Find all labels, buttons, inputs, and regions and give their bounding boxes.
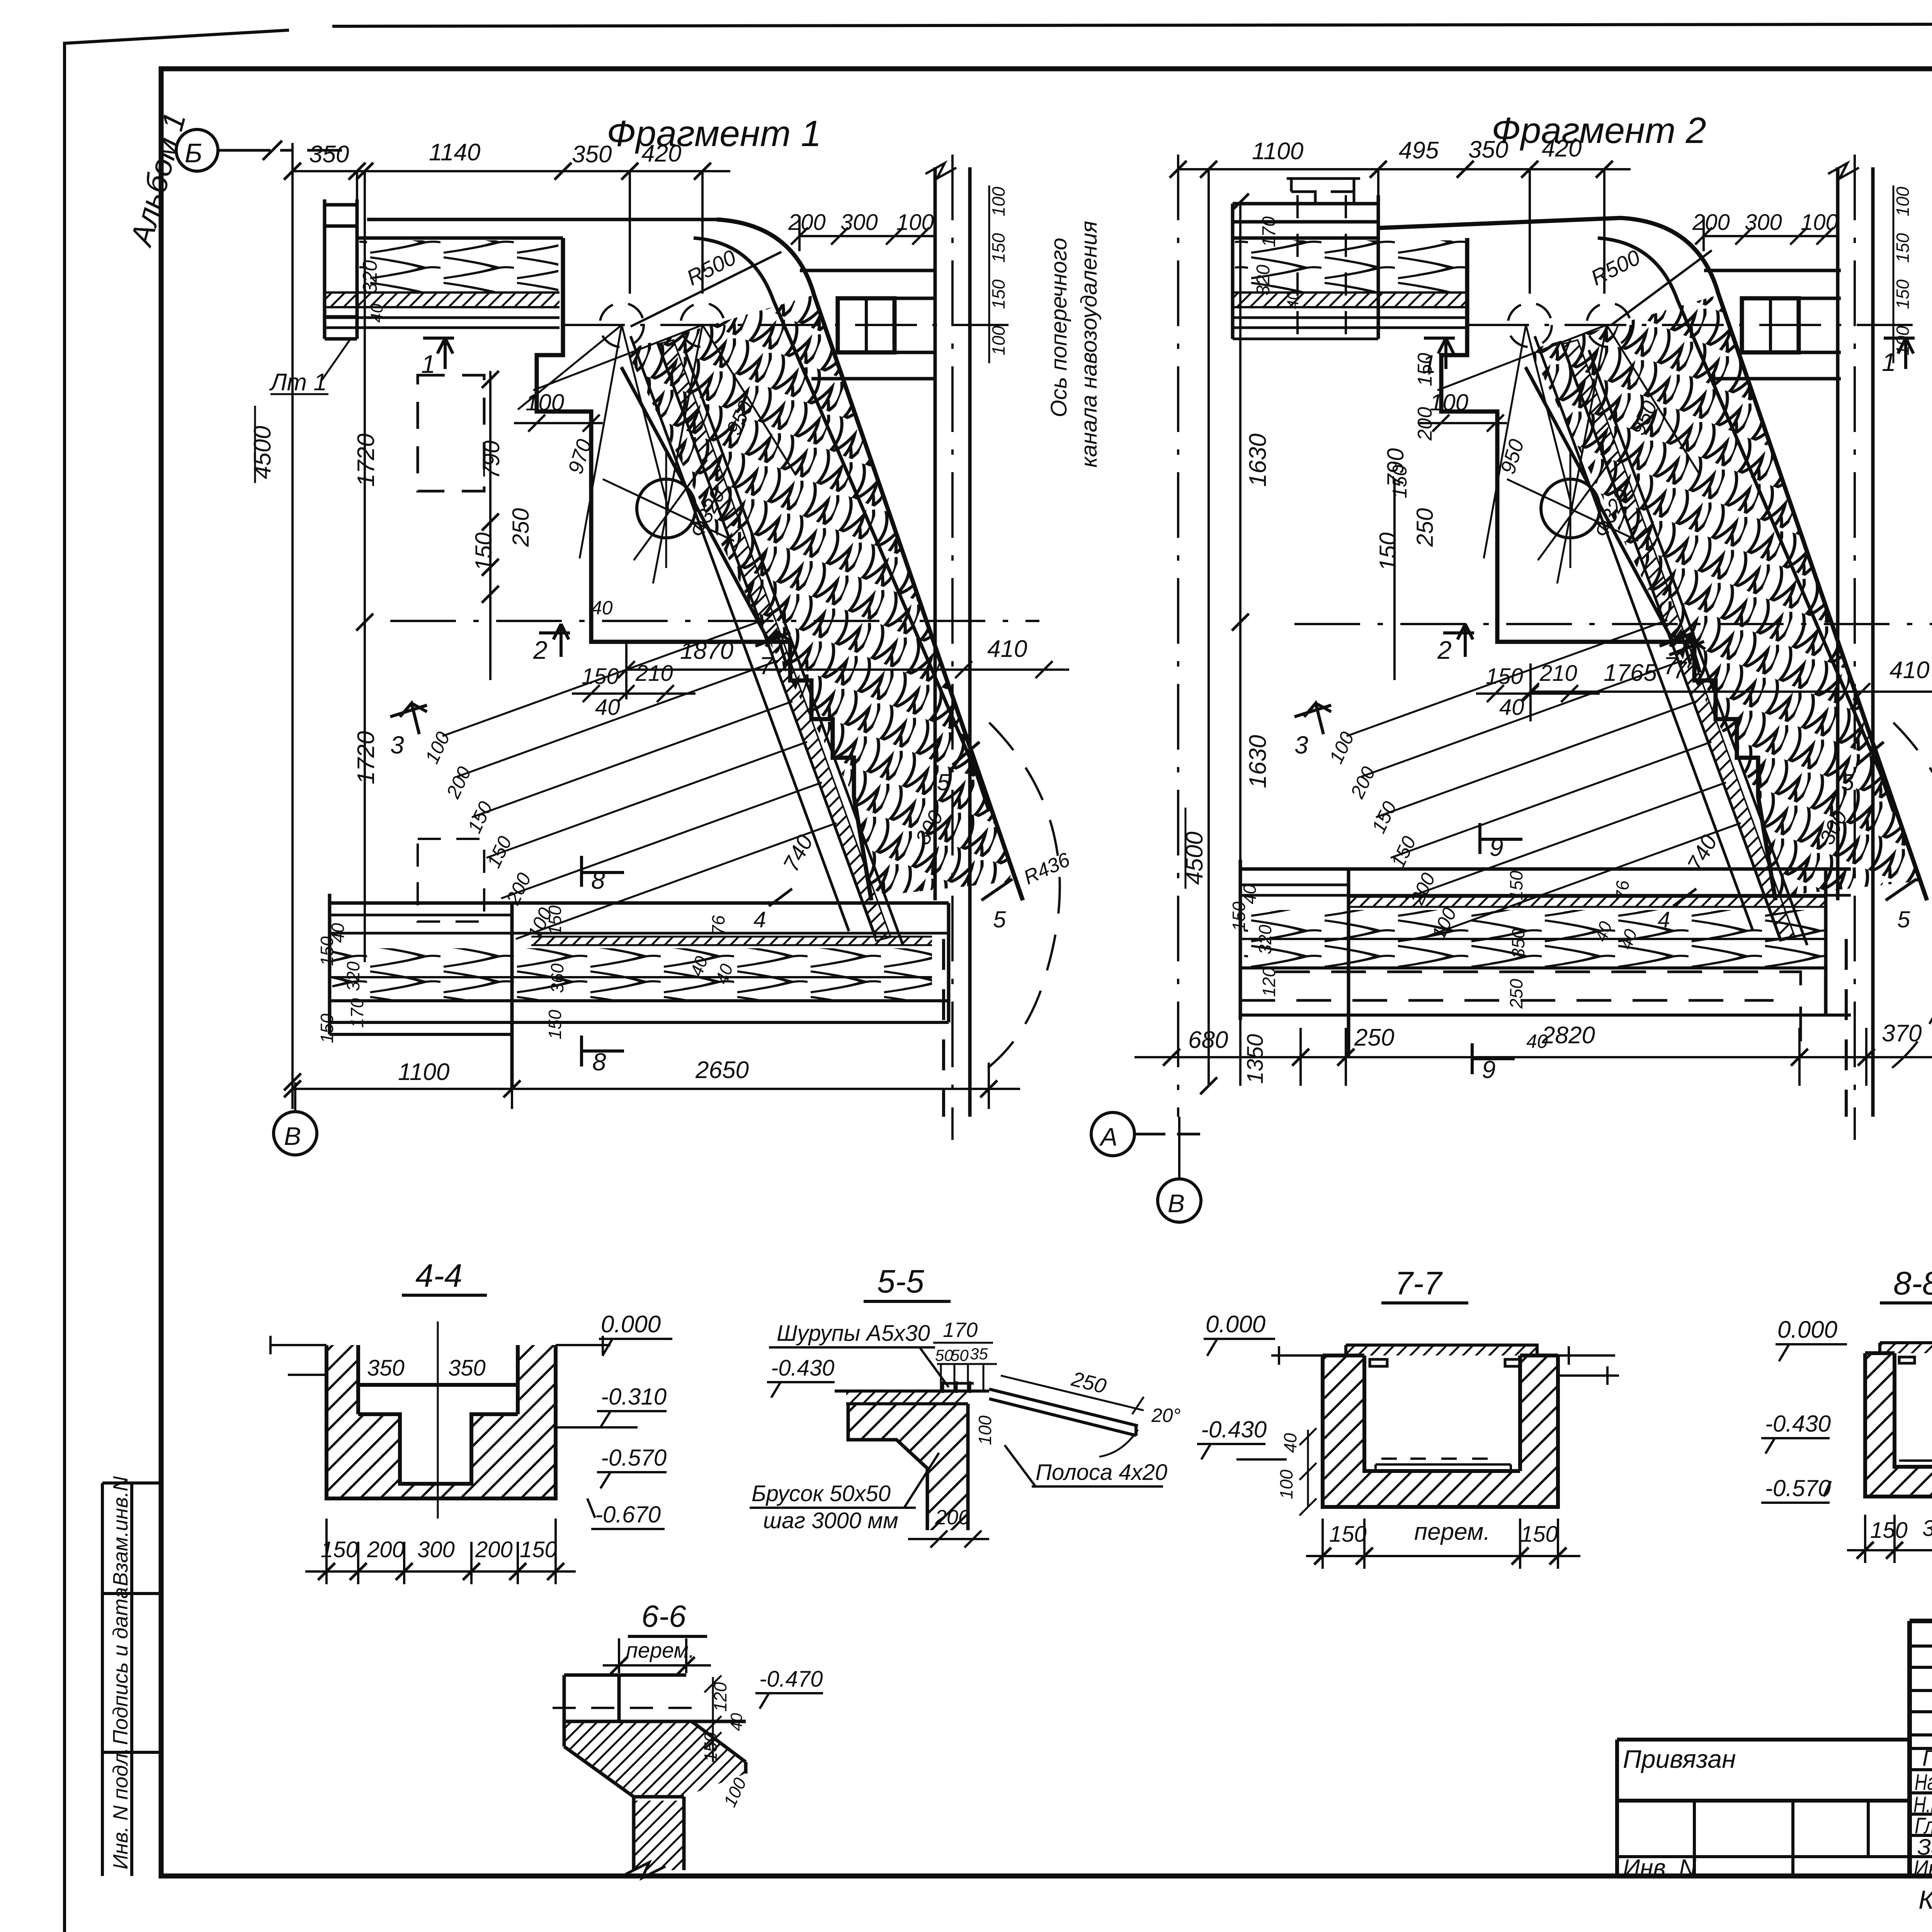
svg-text:Фрагмент 2: Фрагмент 2 — [1492, 110, 1706, 151]
outer top boundary curve into diagonal — [717, 219, 1023, 900]
fragment 1 top dimension texts — [309, 139, 681, 168]
svg-text:150: 150 — [1893, 279, 1913, 309]
dashed sweep curve — [1878, 723, 1932, 1078]
svg-text:5: 5 — [993, 906, 1006, 932]
svg-text:76: 76 — [1612, 880, 1633, 900]
svg-text:-0.470: -0.470 — [759, 1667, 823, 1692]
svg-text:250: 250 — [1354, 1024, 1394, 1051]
bottom channel line y2415 — [330, 932, 949, 935]
svg-text:40: 40 — [1240, 884, 1260, 904]
R500 radius arrow — [631, 252, 781, 327]
tick on axis — [263, 141, 282, 160]
svg-text:350: 350 — [367, 1355, 405, 1381]
svg-text:150: 150 — [1893, 233, 1913, 263]
wall below hatched — [848, 1404, 968, 1530]
svg-text:1870: 1870 — [680, 638, 733, 664]
svg-text:100: 100 — [1430, 389, 1468, 415]
dashed circles on axis — [1508, 303, 1552, 347]
left wall band F2 — [1233, 195, 1378, 339]
svg-text:Брусок 50х50: Брусок 50х50 — [752, 1481, 891, 1506]
svg-text:100: 100 — [975, 1415, 995, 1445]
svg-text:6-6: 6-6 — [641, 1599, 686, 1633]
svg-text:Взам.инв.N: Взам.инв.N — [109, 1476, 132, 1586]
svg-text:370: 370 — [1882, 1020, 1922, 1047]
svg-text:1630: 1630 — [1245, 434, 1271, 487]
main plan outline with pit — [537, 238, 871, 900]
svg-text:2: 2 — [533, 636, 548, 664]
vertical dim ticks left — [284, 163, 373, 1090]
bottom dim line — [293, 1063, 1020, 1109]
conveyor line 1 — [631, 336, 849, 931]
svg-text:150: 150 — [317, 936, 337, 966]
rotated dims left of channel — [1229, 871, 1641, 1009]
radial construction lines — [1437, 325, 1700, 583]
svg-text:100: 100 — [1801, 210, 1838, 235]
bottom channel second line — [330, 914, 512, 917]
dashed lower outline — [1240, 972, 1801, 1051]
right rotated small dims — [988, 187, 1009, 355]
title block outer — [1910, 1621, 1932, 1878]
svg-text:2650: 2650 — [695, 1057, 749, 1083]
svg-text:790: 790 — [1383, 448, 1408, 487]
inner boundary curve — [694, 238, 989, 811]
svg-text:320: 320 — [343, 961, 363, 991]
dashed hidden rect lower — [418, 839, 484, 922]
svg-text:200: 200 — [442, 763, 476, 802]
svg-text:150: 150 — [1870, 1518, 1908, 1543]
svg-text:Лт 1: Лт 1 — [269, 369, 327, 396]
outline 4-4 — [327, 1345, 556, 1498]
svg-text:Шурупы А5х30: Шурупы А5х30 — [777, 1321, 930, 1346]
conveyor line 2 — [658, 343, 876, 938]
svg-text:320: 320 — [1253, 265, 1274, 296]
rotated dims left of bottom channel — [317, 905, 737, 1043]
svg-text:5: 5 — [937, 769, 950, 795]
svg-text:1: 1 — [1882, 348, 1896, 376]
svg-text:1: 1 — [421, 350, 435, 378]
screws — [941, 1381, 974, 1393]
svg-text:4500: 4500 — [249, 426, 276, 479]
dim line 790/250/150 — [1393, 479, 1396, 680]
svg-text:100: 100 — [1893, 187, 1913, 216]
top dimension line — [293, 171, 730, 294]
svg-text:1720: 1720 — [353, 731, 379, 784]
svg-text:-0.670: -0.670 — [595, 1502, 661, 1527]
svg-text:Б: Б — [185, 138, 202, 168]
svg-text:А: А — [1099, 1122, 1117, 1151]
bottom slab hatched — [1364, 1471, 1520, 1507]
right wall hatched — [1520, 1355, 1558, 1507]
svg-text:Копир. Дёнкина: Копир. Дёнкина — [1918, 1885, 1932, 1915]
fan dim texts — [421, 728, 556, 942]
wall band lower lines — [325, 318, 560, 328]
svg-text:200: 200 — [788, 210, 826, 235]
perpendicular dim fan — [1347, 620, 1741, 939]
svg-text:3: 3 — [1294, 731, 1308, 759]
svg-text:Инв. N: Инв. N — [1623, 1855, 1696, 1881]
dims 200 300 100 — [788, 210, 934, 235]
svg-text:360: 360 — [1922, 1516, 1932, 1541]
svg-text:1350: 1350 — [1243, 1034, 1268, 1084]
svg-text:ГИП: ГИП — [1922, 1746, 1932, 1771]
fragment 2 top dim texts — [1252, 135, 1582, 165]
axis leader from Б — [218, 149, 342, 152]
svg-text:680: 680 — [1188, 1027, 1228, 1053]
svg-text:50: 50 — [951, 1346, 969, 1364]
top dim line — [1178, 169, 1631, 294]
svg-text:9: 9 — [1490, 833, 1503, 861]
svg-text:шаг 3000 мм: шаг 3000 мм — [763, 1508, 898, 1533]
svg-text:Нач.отд.: Нач.отд. — [1915, 1770, 1932, 1795]
svg-text:0.000: 0.000 — [601, 1311, 661, 1338]
right wall axis dash-dot — [951, 155, 954, 1140]
svg-text:320: 320 — [359, 260, 381, 294]
T element cross channel — [838, 298, 895, 352]
axis circle В bottom — [274, 1112, 317, 1155]
svg-text:790: 790 — [478, 440, 504, 479]
svg-text:1720: 1720 — [353, 434, 379, 487]
dim line 790/250/150 — [489, 371, 492, 680]
bottom channel lower lines — [330, 1001, 949, 1034]
conveyor hatched strip — [659, 340, 891, 941]
bottom channel F2 — [1240, 867, 1851, 871]
outer border left — [63, 42, 66, 1932]
svg-text:0.000: 0.000 — [1206, 1311, 1265, 1338]
svg-text:-0.430: -0.430 — [1201, 1417, 1267, 1442]
svg-text:410: 410 — [1889, 657, 1929, 684]
band lower lines — [1233, 318, 1467, 339]
big cell split — [1910, 1690, 1932, 1748]
bottom dims — [321, 1537, 557, 1562]
svg-text:250: 250 — [508, 508, 534, 547]
svg-text:Подпись и дата: Подпись и дата — [109, 1587, 132, 1745]
circle D320 — [637, 479, 696, 538]
svg-text:-0.570: -0.570 — [1765, 1475, 1831, 1501]
left axis vertical dash-dot — [1177, 155, 1179, 1117]
svg-text:1100: 1100 — [1252, 138, 1303, 165]
svg-text:200: 200 — [935, 1506, 970, 1529]
inner boundary curve — [1598, 238, 1893, 811]
signature rows — [1910, 1770, 1932, 1857]
floor extension lines — [270, 1336, 611, 1375]
svg-text:8: 8 — [591, 866, 605, 894]
interior liner — [1899, 1406, 1932, 1461]
svg-text:150: 150 — [520, 1537, 557, 1562]
right wall of fragment 2 — [1838, 167, 1873, 1117]
bottom channel top line — [330, 901, 949, 905]
outline 8-8 — [1865, 1353, 1932, 1497]
diagonal channel scale texture — [1530, 295, 1920, 896]
svg-text:20°: 20° — [1151, 1405, 1181, 1426]
svg-text:320: 320 — [1255, 925, 1275, 954]
svg-text:0.000: 0.000 — [1777, 1316, 1837, 1343]
bottom dim line F2 — [1134, 1028, 1932, 1086]
svg-text:40: 40 — [1280, 1433, 1300, 1453]
mid dash-dot axis — [390, 620, 1039, 622]
wall band top lines — [357, 219, 717, 238]
svg-text:Фрагмент 1: Фрагмент 1 — [607, 113, 821, 154]
svg-text:100: 100 — [896, 210, 934, 235]
svg-text:40: 40 — [727, 1713, 745, 1731]
privyazan block — [1617, 1740, 1910, 1878]
svg-text:150: 150 — [545, 905, 565, 935]
svg-text:150: 150 — [582, 664, 619, 689]
svg-text:740: 740 — [778, 831, 818, 876]
svg-text:1140: 1140 — [429, 139, 480, 166]
svg-text:40: 40 — [367, 304, 386, 323]
radial construction lines — [518, 325, 796, 583]
svg-text:150: 150 — [1387, 833, 1420, 871]
left wall hatched — [1865, 1353, 1895, 1497]
top break squares — [1287, 178, 1360, 204]
conveyor hatched strip — [1563, 340, 1795, 941]
dashed circles on axis — [600, 303, 644, 347]
outline 7-7 — [1323, 1355, 1558, 1507]
svg-text:R500: R500 — [683, 245, 740, 290]
svg-text:350: 350 — [1508, 929, 1528, 958]
svg-text:150: 150 — [483, 833, 516, 871]
svg-text:350: 350 — [1468, 136, 1508, 163]
svg-text:76: 76 — [708, 915, 728, 935]
bottom slab hatched — [1895, 1467, 1932, 1497]
left boundary of diagonal channel — [1526, 367, 1673, 641]
upper-left sub table rows — [1910, 1646, 1932, 1735]
bottom channel grain band — [332, 948, 932, 1000]
mid dash-dot axis — [1294, 623, 1932, 625]
svg-text:150: 150 — [1367, 798, 1401, 836]
svg-text:4: 4 — [753, 907, 766, 932]
svg-text:1: 1 — [1422, 350, 1436, 378]
floor level lines sides — [1271, 1346, 1619, 1385]
wall band grain texture — [359, 240, 558, 292]
conveyor line 3 — [685, 350, 903, 945]
svg-text:100: 100 — [988, 326, 1009, 355]
perpendicular dim fan — [442, 620, 837, 939]
svg-text:40: 40 — [595, 695, 620, 720]
svg-text:Полоса 4х20: Полоса 4х20 — [1036, 1460, 1167, 1485]
axis circle А — [1091, 1112, 1134, 1156]
top slab hatched — [1346, 1345, 1537, 1355]
left wall hatched — [1323, 1355, 1364, 1507]
svg-text:Привязан: Привязан — [1623, 1745, 1736, 1773]
left dim verticals — [1209, 169, 1240, 1086]
left boundary of diagonal channel — [621, 367, 769, 641]
svg-text:350: 350 — [309, 141, 349, 168]
element Лт1 at wall end — [325, 199, 357, 339]
bottom channel verticals — [330, 894, 949, 1090]
svg-text:канала навозоудаления: канала навозоудаления — [1077, 221, 1102, 468]
svg-text:360: 360 — [547, 963, 567, 993]
wall break marks top — [925, 163, 956, 179]
svg-text:250: 250 — [1506, 979, 1526, 1009]
svg-text:4-4: 4-4 — [415, 1257, 462, 1294]
outer top boundary curve into diagonal — [1378, 218, 1927, 900]
svg-text:перем.: перем. — [626, 1638, 695, 1662]
band grain — [1235, 240, 1467, 292]
left margin stamp boxes — [102, 1483, 161, 1876]
top slab hatched — [1880, 1343, 1932, 1353]
svg-text:8-8: 8-8 — [1893, 1265, 1932, 1301]
svg-text:150: 150 — [545, 1010, 565, 1039]
main outline with pit F2 — [1441, 238, 1776, 900]
left vertical dim line 4500 — [293, 143, 365, 1082]
svg-text:2: 2 — [1437, 636, 1452, 664]
axis circle Б — [176, 129, 218, 171]
svg-text:150: 150 — [988, 279, 1009, 309]
svg-text:100: 100 — [526, 389, 564, 415]
axis dash-dot horizontal — [563, 324, 1009, 326]
dashed verticals in band — [1298, 195, 1346, 348]
circle D320 — [1541, 479, 1600, 538]
dashed mid line — [553, 1707, 696, 1709]
svg-text:200: 200 — [475, 1537, 513, 1562]
svg-text:Инж.I к.: Инж.I к. — [1913, 1856, 1932, 1881]
R500 radius arrow — [1611, 250, 1712, 325]
svg-text:250: 250 — [1412, 508, 1438, 547]
svg-text:170: 170 — [347, 998, 367, 1028]
interior anchors top — [1370, 1359, 1520, 1366]
slab hatched — [846, 1391, 968, 1404]
svg-text:Инв. N подл.: Инв. N подл. — [109, 1747, 132, 1869]
svg-text:40: 40 — [1499, 695, 1524, 720]
svg-text:R436: R436 — [1020, 849, 1073, 889]
svg-text:Ось поперечного: Ось поперечного — [1046, 238, 1071, 417]
bottom channel hatched strip — [531, 937, 932, 945]
svg-text:410: 410 — [987, 636, 1027, 662]
svg-text:150: 150 — [1375, 532, 1401, 571]
top box outline — [564, 1675, 746, 1721]
interior floor plate — [1376, 1459, 1511, 1471]
svg-text:350: 350 — [572, 141, 612, 168]
center line — [437, 1321, 439, 1519]
hatched corner piece — [564, 1721, 746, 1797]
svg-text:В: В — [1168, 1189, 1185, 1218]
svg-text:150: 150 — [988, 233, 1009, 263]
right wall of fragment 1 — [935, 167, 970, 1117]
T element cross channel — [1742, 298, 1799, 352]
outer border top (skewed scan) — [65, 23, 1932, 43]
svg-text:100: 100 — [988, 187, 1009, 216]
svg-text:120: 120 — [1259, 967, 1279, 997]
svg-text:150: 150 — [317, 1014, 337, 1043]
svg-text:5: 5 — [1841, 769, 1854, 795]
conveyor lines — [1535, 336, 1807, 945]
svg-text:40: 40 — [591, 597, 613, 619]
tilted board — [989, 1389, 1138, 1436]
svg-text:100: 100 — [1276, 1469, 1296, 1499]
dashed sweep curve R436 — [974, 723, 1060, 1078]
band hatch strip — [1233, 293, 1468, 307]
dims 200 300 100 — [1692, 210, 1838, 235]
dashed hidden rectangle — [418, 375, 484, 491]
svg-text:Альбом 1: Альбом 1 — [123, 109, 192, 251]
svg-text:950: 950 — [1496, 437, 1529, 477]
svg-text:170: 170 — [1259, 216, 1279, 247]
svg-text:150: 150 — [1506, 871, 1526, 900]
axis circle В F2 — [1158, 1179, 1201, 1222]
body hatched U — [327, 1345, 556, 1498]
svg-text:40: 40 — [1284, 291, 1302, 309]
svg-text:2820: 2820 — [1541, 1022, 1595, 1049]
svg-text:7: 7 — [759, 652, 774, 680]
svg-text:150: 150 — [463, 798, 497, 836]
svg-text:перем.: перем. — [1414, 1519, 1490, 1545]
svg-text:200: 200 — [367, 1537, 405, 1562]
svg-text:150: 150 — [1329, 1522, 1367, 1547]
svg-text:200: 200 — [1692, 210, 1730, 235]
svg-text:1765: 1765 — [1604, 660, 1657, 686]
svg-text:420: 420 — [1542, 135, 1582, 162]
svg-text:7: 7 — [1673, 657, 1687, 684]
svg-text:350: 350 — [448, 1355, 486, 1381]
bottom channel centerline — [330, 976, 932, 978]
titleblock texts — [1623, 1651, 1932, 1915]
svg-text:35: 35 — [970, 1345, 988, 1363]
wall band hatched strip — [325, 293, 560, 307]
svg-text:5: 5 — [1897, 906, 1910, 932]
svg-text:1100: 1100 — [398, 1059, 449, 1085]
svg-text:420: 420 — [641, 140, 681, 167]
anchors — [1899, 1357, 1932, 1363]
svg-text:1630: 1630 — [1245, 735, 1271, 788]
svg-text:495: 495 — [1399, 137, 1439, 164]
axis dash-dot horizontal — [1467, 324, 1913, 326]
svg-text:-0.310: -0.310 — [601, 1384, 667, 1410]
svg-text:150: 150 — [1229, 901, 1249, 931]
svg-text:3: 3 — [390, 731, 404, 759]
break bottom — [626, 1862, 665, 1878]
svg-text:300: 300 — [417, 1537, 455, 1562]
svg-text:170: 170 — [943, 1318, 978, 1342]
svg-text:150: 150 — [1520, 1522, 1558, 1547]
svg-text:-0.430: -0.430 — [771, 1355, 834, 1381]
svg-text:-0.570: -0.570 — [601, 1445, 667, 1471]
top dim ticks — [284, 163, 711, 180]
svg-text:7-7: 7-7 — [1395, 1265, 1443, 1301]
svg-text:150: 150 — [1486, 664, 1523, 689]
svg-text:В: В — [284, 1122, 301, 1150]
svg-text:R500: R500 — [1587, 245, 1644, 290]
diagonal channel scale texture — [626, 295, 1016, 896]
svg-text:200: 200 — [1346, 763, 1380, 802]
svg-text:-0.430: -0.430 — [1765, 1411, 1831, 1437]
right rotated small dims — [1893, 187, 1913, 355]
svg-text:5-5: 5-5 — [877, 1263, 924, 1299]
